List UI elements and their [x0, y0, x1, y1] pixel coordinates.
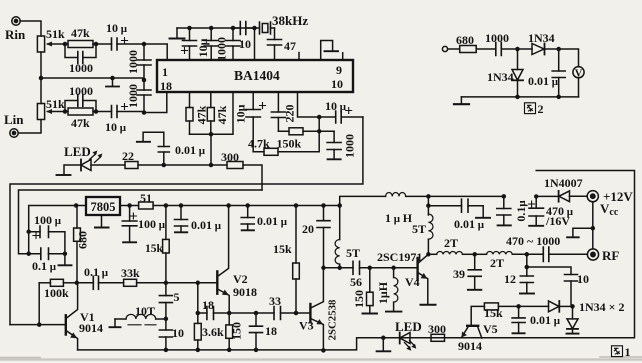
meter V: [573, 67, 584, 78]
node R3n: [63, 251, 68, 256]
resistor R17 3.6k: [194, 313, 201, 350]
capacitor C35 10 (detector feed): [527, 267, 578, 306]
label fig1: [612, 346, 623, 357]
capacitor C18 0.01u (fig2): [552, 51, 565, 97]
node E8: [227, 311, 232, 316]
capacitor C32 0.01u (to gnd stub): [428, 199, 490, 218]
svg-text:10 μ: 10 μ: [105, 120, 127, 134]
node B4: [252, 26, 257, 31]
svg-text:1N4007: 1N4007: [544, 176, 583, 190]
node E1: [37, 322, 42, 327]
node R1n: [26, 251, 31, 256]
node C2: [209, 163, 214, 168]
node A3: [142, 42, 147, 47]
inductor L3 1uH (rail): [386, 192, 504, 196]
svg-text:39: 39: [453, 267, 465, 281]
inductor L2 5T: [335, 206, 340, 268]
svg-text:V5: V5: [483, 322, 498, 336]
node H3: [570, 304, 575, 309]
wire left cap column: [29, 206, 76, 254]
wire audio feed rail: [10, 117, 363, 325]
+12V terminal: [587, 191, 598, 202]
capacitor C11 47: [268, 28, 282, 60]
svg-text:V: V: [575, 69, 583, 80]
wire node C1 to node C2: [164, 164, 211, 166]
bottom rail left: [78, 171, 635, 350]
svg-text:0.1 μ: 0.1 μ: [84, 265, 109, 279]
capacitor C34 12 (to gnd): [520, 254, 534, 293]
capacitor C20 0.1u (left pair): [29, 248, 65, 260]
svg-text:18: 18: [160, 79, 172, 93]
node G6: [472, 252, 477, 256]
node B5: [209, 132, 214, 137]
node E6: [164, 348, 169, 353]
svg-text:9014: 9014: [79, 321, 103, 335]
resistor R20 150 (V4 base): [363, 268, 378, 314]
potentiometer R3 51k (Lin): [37, 104, 65, 120]
wire node A3 to pin 1: [144, 44, 167, 60]
capacitor C24 0.1u (V1 out coupling): [77, 276, 124, 289]
svg-text:2T: 2T: [490, 256, 504, 270]
wire step-up rail: [340, 196, 386, 205]
resistor R14 680 (bias V1): [74, 206, 81, 284]
node E12: [254, 348, 259, 353]
wire V4 base row: [370, 267, 418, 269]
node P1: [502, 194, 507, 199]
node A6: [39, 76, 44, 81]
svg-text:1N34: 1N34: [528, 31, 555, 45]
capacitor C9 (pin bypass): [226, 28, 240, 60]
svg-text:1000: 1000: [69, 84, 93, 98]
svg-text:10 μ: 10 μ: [325, 99, 347, 113]
jumper pin stub up-left: [321, 41, 333, 61]
wire 47k bottoms join: [190, 92, 234, 165]
resistor R7 4.7k: [253, 131, 319, 155]
capacitor C15 1000 (to gnd stub): [319, 131, 341, 159]
svg-text:20: 20: [302, 222, 314, 236]
svg-text:51: 51: [140, 191, 152, 205]
svg-text:0.1μ: 0.1μ: [514, 200, 528, 222]
wire top supply rail: [177, 27, 260, 29]
svg-text:15k: 15k: [145, 243, 164, 255]
wire Rin to pot R1: [20, 21, 41, 36]
svg-text:56: 56: [350, 275, 362, 289]
capacitor C28 18 (to gnd): [250, 313, 263, 350]
node D5n: [245, 203, 250, 208]
svg-text:18: 18: [202, 298, 214, 312]
fig2 bottom rail: [461, 96, 578, 98]
capacitor C36 RF out coupling: [527, 247, 588, 262]
svg-text:47k: 47k: [71, 26, 90, 40]
node D6n: [294, 203, 299, 208]
ground stub mid rail: [106, 78, 119, 87]
transistor V2 9018: [198, 206, 229, 314]
svg-text:1N34 × 2: 1N34 × 2: [579, 300, 625, 314]
LED D1: [81, 151, 103, 171]
capacitor C14 10u (mpx out): [319, 108, 363, 124]
node E4: [196, 281, 201, 286]
ground LED row: [57, 165, 82, 175]
wire pin to mpx node: [298, 92, 320, 117]
svg-text:/16V: /16V: [545, 214, 570, 228]
capacitor C12 10u (pin, to 4.7k): [246, 92, 266, 152]
svg-text:15k: 15k: [273, 242, 292, 256]
main supply rail: [76, 205, 86, 207]
svg-text:V4: V4: [405, 275, 420, 289]
svg-text:1: 1: [625, 345, 631, 359]
svg-text:V2: V2: [233, 272, 248, 286]
svg-text:2: 2: [538, 102, 544, 116]
wire V3 collector row: [324, 267, 340, 269]
node B3: [231, 26, 236, 31]
svg-text:220: 220: [283, 105, 297, 123]
resistor R8 150k: [278, 128, 319, 135]
svg-text:RF: RF: [602, 248, 619, 263]
node B1: [187, 26, 192, 31]
resistor R18 150 (V2 emitter): [226, 313, 233, 350]
svg-text:LED: LED: [395, 319, 422, 334]
wire meter to rail: [578, 78, 580, 97]
svg-text:0.01 μ: 0.01 μ: [257, 214, 288, 228]
capacitor C3 1000 (vertical upper): [137, 44, 151, 80]
svg-text:10: 10: [331, 77, 343, 91]
node A8: [63, 109, 68, 114]
svg-text:BA1404: BA1404: [234, 68, 280, 83]
svg-text:9: 9: [336, 63, 342, 77]
wire LED to R9: [91, 164, 125, 166]
resistor R16 33k: [124, 279, 198, 286]
capacitor C16 0.01u: [137, 132, 169, 165]
capacitor C31 56 (to V4 base): [340, 261, 370, 274]
label fig2: [525, 103, 536, 114]
capacitor C19 100u (left pair): [29, 226, 65, 254]
capacitor C37 0.01u (V5 base): [512, 306, 525, 333]
svg-text:9014: 9014: [458, 339, 482, 353]
resistor R13 15k (to V2 base row): [163, 206, 170, 284]
node A4: [142, 78, 147, 83]
svg-text:0.01 μ: 0.01 μ: [528, 74, 559, 88]
svg-text:5: 5: [174, 290, 180, 304]
svg-text:51k: 51k: [46, 97, 65, 111]
svg-text:1000: 1000: [69, 61, 93, 75]
node E5: [164, 317, 169, 322]
capacitor C27 18 (emitter row): [198, 307, 229, 320]
node R2n: [26, 229, 31, 234]
svg-text:1000: 1000: [343, 134, 357, 158]
node P2: [534, 194, 538, 198]
node A2: [94, 42, 99, 47]
node A5: [142, 110, 147, 115]
wire Lin to pot R3: [18, 120, 41, 134]
svg-text:150k: 150k: [277, 137, 302, 151]
wire pot R1 bottom to node: [40, 52, 42, 78]
node E7: [196, 311, 201, 316]
svg-text:1000: 1000: [485, 31, 509, 45]
svg-text:0.1 μ: 0.1 μ: [32, 259, 57, 273]
svg-text:V3: V3: [299, 319, 314, 333]
node A9: [94, 109, 99, 114]
capacitor C30 20: [317, 206, 330, 268]
node G7: [525, 252, 530, 256]
node D2n: [164, 203, 169, 208]
svg-text:47k: 47k: [195, 105, 209, 124]
ground top rail left: [170, 28, 185, 39]
capacitor C13 220 (pin): [271, 92, 285, 131]
resistor R22 15k (V5 base): [484, 303, 518, 310]
input terminal Rin: [12, 17, 20, 25]
resistor R9 22: [125, 162, 164, 169]
capacitor C39 470u/16V: [529, 196, 544, 225]
wire pot R3 top: [40, 78, 42, 104]
capacitor C10 10 (on rail): [233, 22, 255, 35]
inductor L7 2T (b): [475, 251, 527, 254]
capacitor C8 1000 (pin bypass): [204, 28, 218, 60]
wire node B6-B7: [318, 117, 320, 131]
inductor L6 2T (a): [428, 251, 474, 254]
wire 100k to base row: [38, 283, 40, 325]
node F1: [515, 47, 520, 52]
svg-text:15k: 15k: [484, 306, 503, 320]
node H2: [516, 304, 521, 309]
node E2: [75, 281, 80, 286]
node E16: [337, 203, 342, 208]
svg-text:4.7k: 4.7k: [248, 137, 270, 151]
node D8n: [74, 203, 79, 208]
svg-text:47: 47: [284, 39, 296, 53]
node B7: [317, 115, 322, 120]
node F3: [515, 95, 520, 100]
resistor R10 300: [211, 162, 262, 191]
LED D4 (RF indicator): [400, 333, 417, 351]
diode D3 1N34 (shunt): [512, 51, 523, 97]
svg-text:1μH: 1μH: [376, 281, 390, 304]
scan artifact bottom: [0, 358, 642, 360]
wire node B4 to IC top: [254, 28, 256, 60]
svg-text:10: 10: [239, 37, 251, 51]
svg-text:1: 1: [162, 65, 168, 79]
jumper bar: [325, 50, 339, 52]
node E11: [254, 311, 259, 316]
svg-text:2T: 2T: [444, 236, 458, 250]
ground 7805: [95, 215, 109, 228]
op-amp U1 BA1404 body: [157, 60, 353, 92]
svg-text:10μ: 10μ: [234, 104, 248, 123]
node D1n: [127, 203, 132, 208]
svg-text:Lin: Lin: [4, 112, 24, 127]
node C1: [162, 163, 167, 168]
node E10: [227, 348, 232, 353]
capacitor C1 1000 (parallel Rin): [65, 44, 96, 64]
svg-text:100 μ: 100 μ: [34, 213, 62, 227]
svg-text:LED: LED: [64, 144, 91, 159]
node E3: [164, 281, 169, 286]
svg-text:10: 10: [172, 326, 184, 340]
node D7n: [321, 203, 326, 208]
node E14: [321, 348, 326, 353]
inductor L1 10T: [110, 314, 166, 327]
wire LED row: [383, 337, 431, 339]
wire +12V to RF column: [592, 202, 594, 249]
resistor R11 680 (fig2): [460, 46, 496, 53]
svg-text:1N34: 1N34: [487, 70, 514, 84]
node A1: [63, 42, 68, 47]
capacitor C26 10: [159, 319, 172, 350]
diode D2 1N34 (series): [518, 44, 559, 55]
node D3n: [179, 203, 184, 208]
transistor V1 9014: [66, 283, 78, 350]
resistor R4 47k (Lin): [65, 108, 96, 115]
node G4: [368, 266, 373, 271]
resistor R15 100k: [39, 279, 77, 286]
svg-text:10: 10: [577, 272, 589, 286]
capacitor C5 1000 (parallel Lin): [65, 95, 96, 112]
wire V2 base col down: [197, 283, 199, 313]
ground stub LED row: [377, 338, 391, 352]
resistor R6 47k (pin load 2): [207, 92, 214, 134]
svg-text:3.6k: 3.6k: [202, 325, 224, 339]
pin stub mid: [298, 53, 300, 61]
svg-text:Rin: Rin: [5, 27, 26, 42]
fig2 input terminal: [442, 46, 447, 51]
resistor R19 15k (V3 bias): [293, 206, 300, 314]
node A7: [110, 76, 115, 81]
wire mid rail: [41, 77, 144, 79]
ground fig2: [454, 97, 469, 104]
resistor R12 51: [139, 202, 340, 209]
svg-text:150: 150: [230, 322, 244, 340]
capacitor C23 0.01u (rail bypass b): [241, 206, 254, 231]
resistor R5 47k (pin load 1): [186, 92, 193, 134]
node D4n: [226, 203, 231, 208]
svg-text:12: 12: [504, 272, 516, 286]
wire 5T2 column top: [427, 196, 429, 215]
ground left cap pair: [59, 254, 72, 266]
transistor V4 2SC1971: [418, 254, 436, 304]
node G5: [391, 266, 396, 271]
crystal X1 38kHz: [260, 22, 275, 34]
capacitor C25 5: [159, 283, 172, 319]
resistor R21 300 (LED): [431, 334, 462, 341]
capacitor C38 0.1u (supply bypass): [497, 196, 511, 225]
resistor R2 47k (Rin): [65, 41, 96, 48]
capacitor C29 33 (coupling to V3): [256, 307, 296, 320]
svg-text:18: 18: [265, 324, 277, 338]
svg-text:5T: 5T: [412, 222, 426, 236]
RF terminal: [587, 249, 598, 260]
svg-text:33k: 33k: [121, 266, 140, 280]
svg-text:100 μ: 100 μ: [138, 217, 166, 231]
potentiometer R1 51k: [37, 36, 65, 52]
wire emitter row right: [229, 312, 256, 314]
wire vcc branch rail: [19, 190, 263, 254]
svg-text:300: 300: [428, 322, 446, 336]
svg-text:10 μ: 10 μ: [106, 21, 128, 35]
inductor L5 1uH (V4 base): [386, 268, 401, 312]
svg-text:300: 300: [221, 150, 239, 164]
node B6: [317, 129, 322, 134]
regulator U2 7805: [86, 197, 120, 215]
node G8: [525, 265, 530, 270]
inductor L4 5T (V4 collector): [428, 214, 433, 254]
svg-text:0.01 μ: 0.01 μ: [191, 218, 222, 232]
diode D6 1N34 (detector shunt): [567, 306, 579, 333]
node P3: [591, 226, 596, 231]
wire to IC pin 18: [144, 92, 167, 113]
svg-text:10μ: 10μ: [196, 38, 210, 57]
svg-text:2SC2538: 2SC2538: [327, 299, 339, 340]
input terminal Lin: [10, 129, 18, 137]
svg-text:47k: 47k: [215, 105, 229, 124]
capacitor C17 1000 (fig2): [496, 43, 518, 56]
svg-text:680: 680: [456, 33, 474, 47]
svg-text:1000: 1000: [126, 84, 140, 108]
svg-text:1 μ H: 1 μ H: [385, 211, 413, 225]
svg-text:7805: 7805: [91, 200, 116, 214]
capacitor C4 1000 (vertical lower): [137, 80, 151, 113]
node E9: [196, 348, 201, 353]
svg-text:1000: 1000: [126, 50, 140, 74]
svg-text:2SC1971: 2SC1971: [377, 250, 422, 264]
node H1: [381, 336, 386, 341]
capacitor C2 10u (Rin coupling): [96, 38, 144, 51]
diode D5 1N34 (detector series): [519, 301, 573, 312]
svg-text:38kHz: 38kHz: [272, 13, 308, 28]
svg-text:680: 680: [76, 231, 90, 249]
svg-text:0.01 μ: 0.01 μ: [175, 143, 206, 157]
transistor V3 2SC2538: [296, 268, 323, 351]
node G3: [426, 252, 431, 256]
transistor V5 9014: [461, 306, 484, 338]
diode D7 1N4007: [536, 191, 587, 202]
svg-text:1000: 1000: [215, 37, 229, 61]
capacitor C33 39 (to gnd): [468, 254, 481, 289]
svg-text:5T: 5T: [346, 246, 360, 260]
wire fig2 input: [448, 48, 460, 50]
svg-text:47k: 47k: [71, 116, 90, 130]
svg-text:0.01 μ: 0.01 μ: [530, 313, 561, 327]
svg-text:9018: 9018: [233, 285, 257, 299]
node G2: [426, 203, 431, 208]
capacitor C22 0.01u (rail bypass a): [175, 206, 188, 233]
svg-text:150: 150: [352, 290, 366, 308]
svg-text:100k: 100k: [44, 286, 69, 300]
svg-text:470 ~ 1000: 470 ~ 1000: [506, 234, 560, 248]
wire to meter: [559, 49, 579, 67]
wire V1 base row: [10, 324, 65, 326]
node G1: [426, 194, 431, 199]
node B2: [209, 26, 214, 31]
svg-text:0.01 μ: 0.01 μ: [454, 217, 485, 231]
node E13: [294, 311, 299, 316]
node F4: [556, 95, 561, 100]
jumper pin stub right: [342, 53, 344, 60]
svg-text:22: 22: [122, 149, 134, 163]
node F2: [556, 47, 561, 52]
svg-text:33: 33: [269, 294, 281, 308]
capacitor C7 10u (pin bypass): [182, 28, 197, 60]
svg-text:10T: 10T: [135, 304, 155, 318]
capacitor C21 100u (7805 out): [122, 206, 137, 243]
wire 7805 out: [120, 205, 139, 207]
node E17: [337, 266, 342, 271]
svg-text:51k: 51k: [46, 27, 65, 41]
capacitor C6 10u (Lin coupling): [96, 104, 144, 118]
antenna tap 470-1000: [567, 228, 593, 237]
node E15: [321, 266, 326, 271]
